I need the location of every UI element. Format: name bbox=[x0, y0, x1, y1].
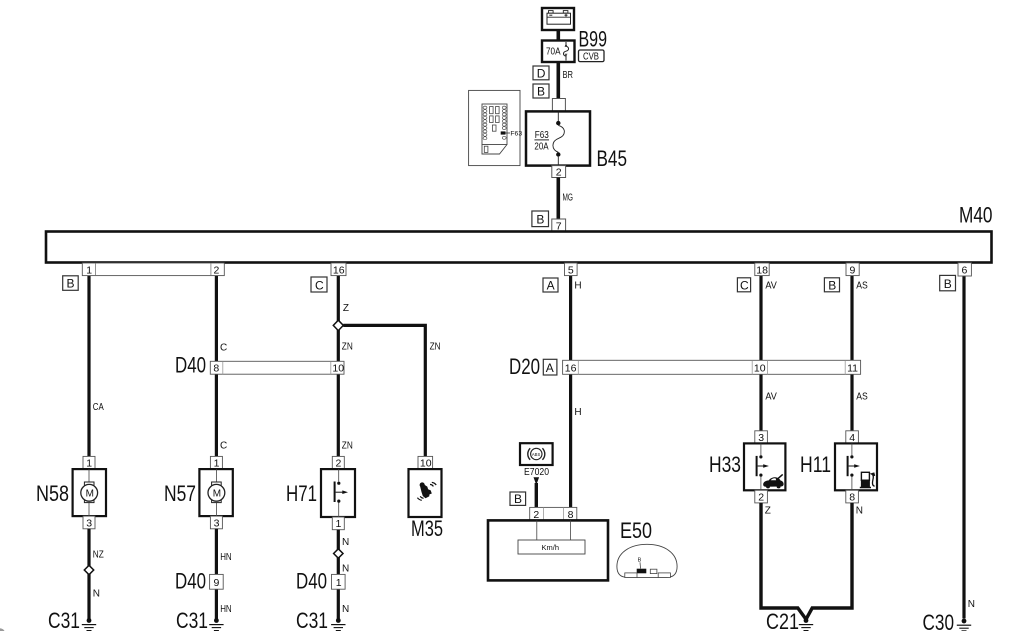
svg-text:8: 8 bbox=[568, 509, 574, 521]
svg-text:H33: H33 bbox=[709, 452, 741, 477]
connector strip E50 pins 2 8 bbox=[530, 507, 577, 520]
svg-text:C31: C31 bbox=[176, 608, 208, 631]
svg-text:C31: C31 bbox=[296, 608, 328, 631]
device B45 fuse box bbox=[526, 111, 590, 165]
svg-text:C31: C31 bbox=[48, 608, 80, 631]
svg-text:N58: N58 bbox=[36, 481, 69, 506]
svg-text:2: 2 bbox=[214, 264, 220, 276]
svg-text:18: 18 bbox=[756, 264, 768, 276]
svg-text:4: 4 bbox=[849, 432, 855, 444]
pin 2 of H71 bbox=[332, 456, 344, 469]
svg-text:M35: M35 bbox=[411, 516, 443, 541]
svg-text:M40: M40 bbox=[959, 203, 993, 228]
svg-text:E7020: E7020 bbox=[524, 467, 549, 478]
svg-text:10: 10 bbox=[754, 363, 766, 375]
svg-text:1: 1 bbox=[86, 458, 92, 470]
wire pin6 N bbox=[964, 276, 975, 619]
ground C30 bbox=[957, 619, 971, 631]
svg-text:C: C bbox=[740, 279, 749, 293]
svg-text:N: N bbox=[342, 604, 349, 615]
pin 5 box bbox=[565, 263, 578, 276]
svg-text:B: B bbox=[944, 277, 952, 291]
pin 9 box bbox=[846, 263, 859, 276]
wire pin9 AS bbox=[852, 276, 868, 432]
svg-text:HN: HN bbox=[220, 604, 232, 615]
svg-text:N: N bbox=[968, 599, 975, 610]
wire pin2 C upper bbox=[216, 276, 227, 457]
connector D40 pin 1 bbox=[332, 574, 346, 589]
svg-text:9: 9 bbox=[850, 264, 856, 276]
svg-text:H11: H11 bbox=[800, 452, 831, 477]
svg-text:M: M bbox=[213, 489, 221, 500]
connector B of E50 bbox=[510, 492, 526, 506]
svg-text:AV: AV bbox=[765, 392, 777, 403]
svg-text:C21: C21 bbox=[766, 609, 799, 631]
switch H33 bbox=[744, 443, 785, 490]
svg-text:11: 11 bbox=[847, 363, 858, 375]
svg-text:10: 10 bbox=[420, 458, 432, 470]
svg-text:B: B bbox=[514, 492, 522, 506]
svg-text:N: N bbox=[342, 537, 349, 548]
fuse B99 70A bbox=[542, 41, 575, 63]
connector A of D20 bbox=[543, 359, 557, 375]
page corner mark bbox=[0, 628, 5, 631]
svg-text:A: A bbox=[547, 279, 555, 293]
svg-text:E50: E50 bbox=[620, 518, 652, 543]
svg-text:B: B bbox=[828, 279, 836, 293]
svg-text:H: H bbox=[574, 407, 581, 418]
arrow connector below E7020 bbox=[534, 477, 540, 485]
svg-text:M: M bbox=[86, 489, 94, 500]
svg-text:2: 2 bbox=[336, 458, 342, 470]
svg-text:8: 8 bbox=[849, 492, 855, 504]
svg-text:NZ: NZ bbox=[93, 550, 104, 561]
splice diamond on H71 wire bbox=[334, 549, 343, 558]
svg-text:1: 1 bbox=[214, 458, 220, 470]
connector B of M40 bbox=[532, 211, 549, 227]
motor N58 bbox=[73, 469, 106, 516]
svg-text:D40: D40 bbox=[175, 353, 206, 378]
svg-text:B: B bbox=[536, 213, 544, 227]
connector D40 pin 9 bbox=[210, 574, 224, 589]
connector D bbox=[533, 66, 549, 80]
svg-text:N: N bbox=[856, 506, 863, 517]
svg-text:ZN: ZN bbox=[342, 342, 353, 353]
svg-text:C: C bbox=[220, 343, 227, 354]
wire NZ N to C31 bbox=[89, 529, 104, 621]
wire MG bbox=[558, 178, 573, 220]
svg-text:B45: B45 bbox=[597, 146, 628, 171]
svg-text:1: 1 bbox=[336, 518, 342, 530]
pin 1 of N58 bbox=[83, 456, 95, 469]
svg-text:B99: B99 bbox=[579, 27, 608, 52]
splice diamond on wire 16 bbox=[333, 320, 343, 330]
label CVB bbox=[579, 50, 605, 62]
svg-text:2: 2 bbox=[533, 509, 539, 521]
device M40 bus bar bbox=[46, 232, 992, 263]
sensor E7020 bbox=[520, 443, 553, 465]
svg-text:1: 1 bbox=[336, 577, 342, 589]
pin 3 of N58 bbox=[83, 516, 95, 529]
connector A (pin 5) bbox=[543, 278, 558, 293]
wire pin18 AV bbox=[761, 276, 777, 432]
pin 10 of M35 bbox=[418, 456, 433, 469]
svg-text:16: 16 bbox=[333, 264, 345, 276]
svg-text:AS: AS bbox=[856, 281, 868, 292]
ground C21 bbox=[799, 618, 813, 630]
svg-text:70A: 70A bbox=[546, 46, 561, 57]
switch H11 bbox=[835, 443, 877, 490]
motor N57 bbox=[199, 469, 232, 516]
svg-text:CA: CA bbox=[93, 402, 104, 413]
svg-text:9: 9 bbox=[214, 577, 220, 589]
pin 8 of H11 bbox=[846, 490, 859, 503]
connector box on B45 bbox=[552, 99, 565, 112]
wire N to C21 bbox=[806, 503, 863, 619]
cluster location pictogram bbox=[617, 544, 677, 577]
svg-text:F63: F63 bbox=[510, 130, 522, 137]
pin 7 of M40 bbox=[552, 219, 566, 232]
wire BR bbox=[558, 62, 573, 99]
svg-text:C: C bbox=[220, 441, 227, 452]
svg-text:ZN: ZN bbox=[430, 342, 441, 353]
svg-text:N: N bbox=[342, 564, 349, 575]
fusebox location icon bbox=[469, 90, 523, 165]
svg-text:Km/h: Km/h bbox=[542, 543, 560, 552]
svg-text:ABS: ABS bbox=[532, 452, 541, 457]
pin 4 of H11 bbox=[846, 431, 859, 444]
svg-text:D40: D40 bbox=[296, 569, 327, 594]
svg-text:N: N bbox=[93, 589, 100, 600]
svg-text:3: 3 bbox=[214, 517, 220, 529]
svg-text:B: B bbox=[537, 84, 545, 98]
connector strip pins 1 2 bbox=[82, 263, 224, 276]
wire HN to D40 bbox=[216, 529, 231, 621]
svg-text:B: B bbox=[638, 558, 642, 564]
battery A1 bbox=[542, 8, 574, 30]
svg-text:D20: D20 bbox=[509, 354, 540, 379]
fuse F63 highlight bbox=[501, 131, 506, 134]
connector C (pin 16) bbox=[311, 277, 327, 292]
svg-text:AS: AS bbox=[856, 392, 868, 403]
svg-text:F63: F63 bbox=[535, 130, 549, 141]
connector C (pin 18) bbox=[737, 278, 750, 293]
svg-text:HN: HN bbox=[220, 552, 232, 563]
wire Z to C21 bbox=[761, 503, 806, 619]
fuel pump icon bbox=[861, 472, 869, 480]
svg-text:8: 8 bbox=[213, 363, 219, 375]
connector strip D20 pins 16 10 11 bbox=[563, 360, 861, 374]
car icon bbox=[763, 477, 783, 486]
svg-text:2: 2 bbox=[556, 167, 562, 179]
pin 18 box bbox=[755, 263, 769, 276]
splice diamond on N58 wire bbox=[84, 565, 93, 574]
svg-text:ZN: ZN bbox=[342, 441, 353, 452]
svg-text:3: 3 bbox=[758, 432, 764, 444]
svg-text:Z: Z bbox=[765, 506, 771, 517]
pin 3 of H33 bbox=[755, 431, 768, 444]
pin 3 of N57 bbox=[210, 516, 222, 529]
pin 1 of N57 bbox=[210, 456, 222, 469]
wire pin16 Z bbox=[338, 276, 353, 457]
svg-text:10: 10 bbox=[332, 363, 344, 375]
svg-text:C: C bbox=[315, 278, 324, 292]
connector B (pin 6) bbox=[940, 275, 956, 291]
svg-text:H: H bbox=[574, 281, 581, 292]
pin 2 of H33 bbox=[755, 490, 768, 503]
switch H71 bbox=[321, 469, 355, 517]
wire pin5 H bbox=[571, 276, 582, 508]
pin 16 box bbox=[331, 263, 346, 276]
svg-text:AV: AV bbox=[765, 281, 777, 292]
svg-text:5: 5 bbox=[568, 264, 574, 276]
svg-text:D40: D40 bbox=[175, 569, 206, 594]
svg-text:MG: MG bbox=[563, 193, 574, 204]
svg-text:B: B bbox=[67, 277, 75, 291]
wire battery to B99 bbox=[556, 30, 560, 41]
svg-text:1: 1 bbox=[86, 264, 92, 276]
connector B bbox=[533, 84, 549, 98]
pin 2 of B45 bbox=[552, 166, 566, 179]
svg-text:CVB: CVB bbox=[583, 51, 599, 62]
pump M35 bbox=[409, 469, 442, 517]
pin 1 of H71 bbox=[332, 517, 344, 530]
ground C31 (N58) bbox=[82, 618, 96, 630]
svg-text:Z: Z bbox=[343, 303, 349, 314]
wire branch to M35 ZN bbox=[343, 325, 440, 456]
wire N to C31 (H71) bbox=[338, 530, 349, 621]
svg-text:20A: 20A bbox=[534, 142, 548, 153]
svg-text:N57: N57 bbox=[164, 481, 196, 506]
device E50 instrument cluster bbox=[488, 520, 608, 580]
ground C31 (N57) bbox=[209, 618, 223, 630]
svg-text:16: 16 bbox=[565, 363, 577, 375]
svg-text:C30: C30 bbox=[923, 610, 955, 631]
svg-text:H71: H71 bbox=[286, 481, 317, 506]
wire E7020 to E50 pin 2 bbox=[535, 483, 538, 508]
svg-text:2: 2 bbox=[758, 492, 764, 504]
connector B (pins 1-2) bbox=[63, 276, 78, 291]
svg-text:BR: BR bbox=[563, 70, 574, 81]
ground C31 (H71) bbox=[331, 618, 345, 630]
connector B (pin 9) bbox=[824, 278, 839, 293]
svg-text:3: 3 bbox=[86, 517, 92, 529]
svg-text:6: 6 bbox=[962, 265, 968, 277]
svg-text:A: A bbox=[546, 361, 554, 375]
svg-text:D: D bbox=[537, 66, 546, 80]
connector strip D40 pins 8 10 bbox=[210, 361, 344, 374]
pin 6 box bbox=[958, 263, 971, 277]
wire pin1 CA bbox=[89, 276, 104, 457]
